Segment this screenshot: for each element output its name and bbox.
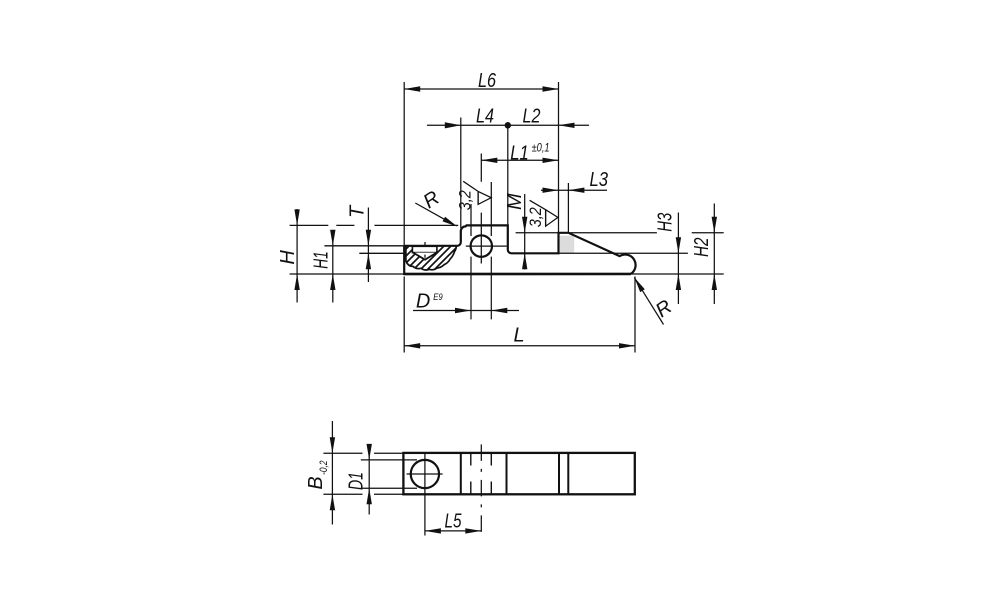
vertical ext: slope start (L3) [567,183,569,233]
R callout top-left [415,203,448,221]
svg-text:D: D [416,290,430,312]
svg-text:L5: L5 [445,511,463,533]
horizontal ext yBot right [632,273,724,275]
svg-text:L2: L2 [523,105,541,127]
H3 [677,213,679,305]
vertical ext: hole D edges up [471,182,491,236]
svg-text:R: R [420,187,444,213]
screw slot (white) [412,246,437,252]
surface finish symbol 2 [530,200,558,226]
screw countersink V [413,253,437,260]
svg-text:D1: D1 [346,472,368,490]
screw head top edge (thin) [404,224,458,226]
hole circle [411,460,439,488]
circle centerlines [407,473,443,475]
svg-text:H2: H2 [691,237,713,257]
horizontal ext yD right (broken) [568,232,723,234]
vertical ext: notch left wall (dot) [507,122,509,225]
horizontal ext M top (notch) [516,232,559,234]
M [524,194,526,270]
horizontal ext yC left [359,252,404,254]
outline rect [403,453,634,494]
svg-text:H1: H1 [311,251,333,269]
clamp bar outline (bold) [404,225,635,274]
slot centerline (dash-dot) [480,444,482,535]
T [367,208,369,283]
svg-text:E9: E9 [433,292,443,303]
horizontal ext yC right [559,252,688,254]
slot edges below circle [471,257,491,320]
B -0,2 [331,421,333,525]
H [296,209,298,303]
svg-text:L3: L3 [590,169,609,191]
svg-text:L6: L6 [478,70,497,92]
svg-text:L4: L4 [476,106,494,128]
vertical ext: L bottom [404,277,635,353]
horizontal ext yB left [324,245,404,247]
svg-text:R: R [652,296,676,322]
svg-text:H: H [277,250,299,265]
L4 / L2 chain [427,124,589,126]
svg-text:T: T [346,204,368,218]
horizontal ext yBot left [290,273,405,275]
svg-text:3,2: 3,2 [526,207,545,227]
L1 +-0,1 [481,159,558,161]
svg-text:L: L [513,325,524,347]
svg-text:3,2: 3,2 [456,190,475,210]
svg-text:±0,1: ±0,1 [532,143,550,155]
bar bottom edge (bold, full) [404,273,630,276]
svg-text:-0,2: -0,2 [318,461,330,475]
L6 [404,88,558,90]
svg-text:M: M [504,193,526,210]
horizontal ext yA left (broken) [290,224,405,226]
svg-text:L1: L1 [510,143,529,165]
vertical ext: hole centerline up (L1) [480,154,482,236]
screw centerline ticks [424,242,426,258]
svg-text:H3: H3 [655,213,677,232]
hidden slot edges (dashed) [471,453,492,494]
internal edges [461,453,569,494]
L [404,345,635,347]
L3 [541,189,607,191]
H1 [332,234,334,303]
vertical ext: left edge [403,82,405,246]
H2 [713,204,715,305]
surface finish symbol 1 [463,181,491,204]
D1 [368,446,370,515]
svg-text:B: B [305,476,327,489]
grey insert pad [560,236,574,253]
vertical ext: slot wall (L4) [460,118,462,229]
hole centerline horizontal [466,245,507,247]
D E9 [413,310,519,312]
vertical ext: notch right wall [558,82,560,233]
R callout bottom-right [634,278,663,325]
L5 [425,530,481,532]
cross hole circle [471,235,492,256]
screw (sectioned) body with thread scallops [406,246,457,270]
screw section hatching [381,240,485,274]
